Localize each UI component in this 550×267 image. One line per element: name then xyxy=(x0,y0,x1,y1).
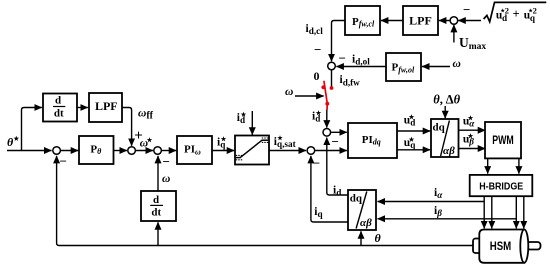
wire U_max to J7 xyxy=(453,25,455,43)
wire saturation to J5 (i_q,sat*) xyxy=(270,150,307,152)
wire J5 to PI_dq xyxy=(315,150,347,152)
svg-text:−: − xyxy=(339,51,346,66)
wire H-BRIDGE to HSM phase 1 xyxy=(483,197,485,229)
svg-text:id,fw: id,fw xyxy=(340,74,361,87)
wire J3 to PI_omega xyxy=(162,150,176,152)
block LPF 1 xyxy=(89,93,122,122)
block LPF 2 xyxy=(403,6,438,35)
svg-text:PWM: PWM xyxy=(492,133,514,147)
svg-text:ω: ω xyxy=(285,86,293,98)
block text d/dt 1 xyxy=(53,95,65,120)
wire theta into dq/ab bottom xyxy=(360,231,362,245)
sqrt radical xyxy=(484,2,547,21)
block PI_omega xyxy=(177,136,212,164)
block text d/dt 2 xyxy=(150,194,163,218)
svg-text:ωff: ωff xyxy=(138,108,154,122)
svg-text:HSM: HSM xyxy=(490,241,512,253)
block P_fw,ol xyxy=(386,53,421,81)
wire branch up to derivative block xyxy=(22,108,42,151)
saturation symbol interior xyxy=(236,140,268,157)
wire P_fw,ol to J6 (i_d,ol) xyxy=(336,66,385,68)
svg-text:H-BRIDGE: H-BRIDGE xyxy=(479,180,523,192)
dq/ab bottom interior xyxy=(350,192,372,230)
svg-text:Umax: Umax xyxy=(459,35,486,52)
wire H-BRIDGE to HSM phase 4 xyxy=(523,197,525,229)
svg-text:dq: dq xyxy=(350,193,363,205)
svg-text:dt: dt xyxy=(151,207,161,219)
block d/dt 1 xyxy=(43,94,77,122)
wire H-BRIDGE to HSM phase 2 xyxy=(491,197,493,229)
wire i_beta to dq/ab bottom xyxy=(378,218,517,220)
wire PWM to H-BRIDGE 1 xyxy=(487,159,489,174)
svg-text:id,cl: id,cl xyxy=(306,23,324,36)
block dq/ab bottom xyxy=(348,190,376,230)
block P_fw,cl xyxy=(345,6,380,35)
svg-text:2: 2 xyxy=(505,5,509,15)
svg-text:−: − xyxy=(463,2,470,17)
block PI_dq xyxy=(348,123,397,158)
wire J2 to J3 (omega*) xyxy=(136,150,153,152)
HSM motor xyxy=(473,230,541,263)
wire LPF to sum J2 (omega_ff) xyxy=(122,108,132,146)
wire theta feedback bottom line xyxy=(57,156,473,246)
wire P_theta to J2 xyxy=(114,150,127,152)
svg-text:iq: iq xyxy=(314,206,323,219)
wire theta,dtheta into dq/ab xyxy=(444,106,446,118)
wire J6 down to switch contact xyxy=(331,70,333,88)
wire LPF2 to P_fw,cl xyxy=(381,20,403,22)
svg-text:αβ: αβ xyxy=(360,217,372,229)
dq/ab top interior xyxy=(433,121,456,157)
svg-text:ω: ω xyxy=(140,138,148,150)
svg-text:LPF: LPF xyxy=(409,13,432,27)
svg-text:θ,Δθ: θ,Δθ xyxy=(433,93,460,107)
wire d/dt to LPF xyxy=(78,107,88,109)
junction J6 fw sum xyxy=(328,62,336,70)
wire P_fw,cl output to J6 (i_d,cl) xyxy=(332,21,345,62)
svg-text:0: 0 xyxy=(314,69,320,83)
svg-text:+: + xyxy=(513,7,520,21)
junction J1 theta sum xyxy=(53,147,61,155)
svg-text:ω: ω xyxy=(453,58,461,70)
wire PI_omega to saturation (i_q*) xyxy=(213,150,235,152)
wire omega to P_fw,ol xyxy=(422,66,450,68)
block P_theta xyxy=(79,136,114,164)
wire J4 to PI_dq xyxy=(331,131,347,133)
svg-text:−: − xyxy=(163,154,170,169)
wire d/dt 2 to J3 (omega) xyxy=(157,156,159,191)
wire PWM to H-BRIDGE 2 xyxy=(518,159,520,174)
svg-text:d: d xyxy=(55,95,61,107)
svg-text:id: id xyxy=(333,185,341,198)
junction J7 voltage sum xyxy=(450,17,458,25)
svg-text:dt: dt xyxy=(54,108,64,120)
junction J4 i_d sum xyxy=(323,129,331,137)
wire J1 to P_theta xyxy=(61,150,78,152)
svg-text:LPF: LPF xyxy=(95,99,118,113)
block dq/ab top xyxy=(431,119,459,157)
switch red blade xyxy=(321,81,333,110)
svg-text:iq,sat: iq,sat xyxy=(274,136,297,149)
wire i_d feedback to J4 xyxy=(327,138,348,195)
wire bottom line to d/dt 2 xyxy=(157,222,159,245)
block H-BRIDGE xyxy=(470,175,533,196)
svg-text:ω: ω xyxy=(162,173,170,185)
svg-text:−: − xyxy=(314,42,321,57)
block PWM xyxy=(485,122,521,158)
wire dq/ab to PWM (u_b*) xyxy=(459,148,486,150)
wire J7 to LPF2 xyxy=(439,20,450,22)
wire sqrt term to J7 xyxy=(458,20,481,22)
svg-text:αβ: αβ xyxy=(443,145,455,157)
block saturation xyxy=(235,136,269,165)
svg-text:iβ: iβ xyxy=(434,205,442,218)
wire PI_dq to dq/ab (u_d*) xyxy=(398,130,431,132)
wire i_d* into saturation top xyxy=(251,111,253,135)
svg-text:−: − xyxy=(60,154,67,169)
wire i_q feedback to J5 xyxy=(311,156,348,222)
svg-text:iα: iα xyxy=(434,187,443,200)
svg-text:θ: θ xyxy=(375,231,382,245)
wire H-BRIDGE to HSM phase 3 xyxy=(515,197,517,229)
svg-text:d: d xyxy=(153,194,159,206)
wire omega to switch xyxy=(295,95,324,97)
wire dq/ab to PWM (u_a*) xyxy=(459,129,486,131)
wire i_alpha to dq/ab bottom xyxy=(378,201,485,203)
wire PI_dq to dq/ab (u_q*) xyxy=(398,149,431,151)
junction J3 omega fb sum xyxy=(154,147,162,155)
junction J2 omega sum xyxy=(128,147,136,155)
block d/dt 2 xyxy=(141,191,176,221)
svg-text:2: 2 xyxy=(533,5,537,15)
svg-text:−: − xyxy=(313,156,320,171)
wire theta* input xyxy=(7,150,52,152)
svg-text:dq: dq xyxy=(433,121,446,133)
svg-text:−: − xyxy=(332,134,339,149)
svg-text:id,ol: id,ol xyxy=(352,53,370,66)
wire switch to J4 (i_d*) xyxy=(326,110,328,128)
svg-text:θ: θ xyxy=(7,135,14,149)
junction J5 i_q sum xyxy=(307,147,315,155)
